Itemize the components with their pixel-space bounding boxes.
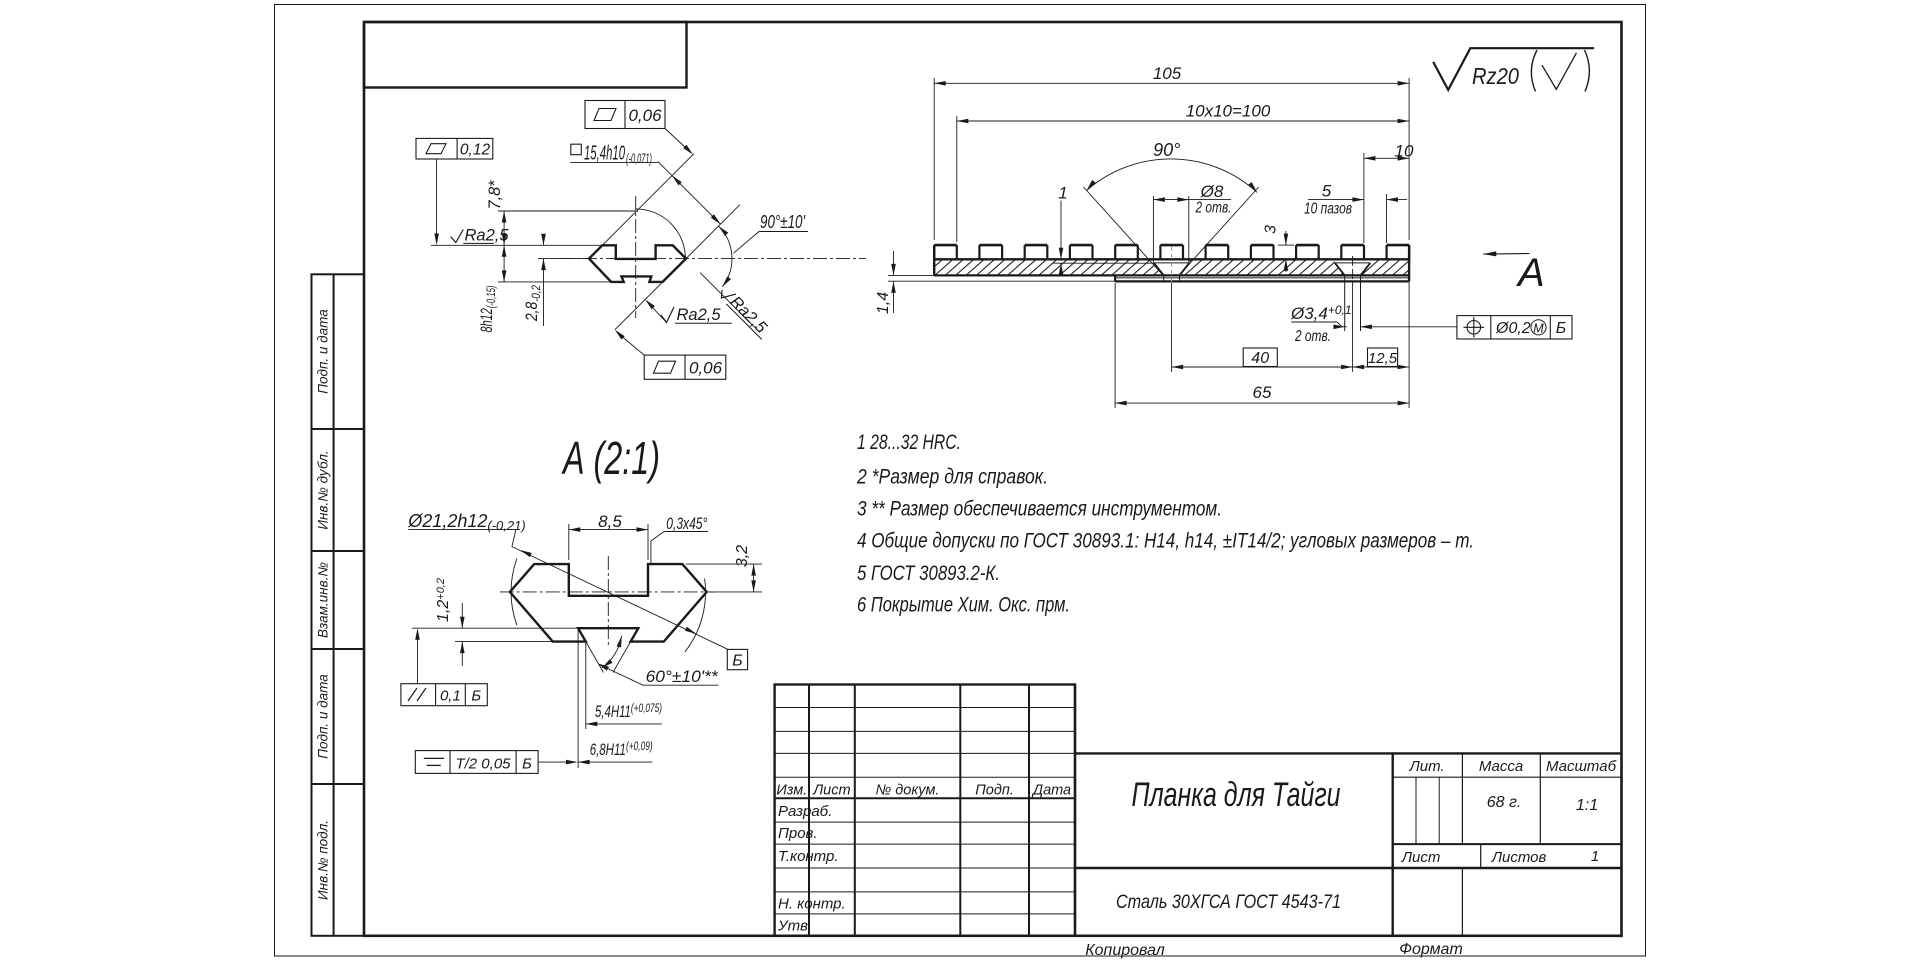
svg-text:Инв.№ дубл.: Инв.№ дубл.: [316, 450, 331, 529]
svg-text:Ø0,2: Ø0,2: [1495, 320, 1531, 337]
svg-text:Взам.инв.№: Взам.инв.№: [316, 562, 331, 638]
svg-text:Лист: Лист: [1401, 849, 1441, 866]
svg-text:Б: Б: [522, 756, 532, 773]
svg-text:Масса: Масса: [1479, 758, 1523, 775]
svg-text:7,8*: 7,8*: [485, 179, 504, 209]
svg-text:12,5: 12,5: [1368, 350, 1398, 367]
svg-text:40: 40: [1251, 350, 1269, 367]
svg-text:Rz20: Rz20: [1472, 63, 1519, 89]
svg-text:105: 105: [1153, 64, 1182, 83]
svg-text:Планка для Тайги: Планка для Тайги: [1132, 776, 1341, 814]
svg-text:0,3x45°: 0,3x45°: [666, 515, 707, 533]
svg-text:М: М: [1533, 321, 1544, 335]
svg-text:1:1: 1:1: [1576, 797, 1598, 814]
svg-text:2 отв.: 2 отв.: [1195, 200, 1232, 217]
svg-text:1 28...32 HRC.: 1 28...32 HRC.: [857, 430, 961, 454]
svg-text:Б: Б: [1556, 320, 1566, 337]
svg-text:90°±10': 90°±10': [760, 212, 805, 232]
svg-text:Ø8: Ø8: [1200, 182, 1224, 201]
svg-text:10x10=100: 10x10=100: [1186, 102, 1271, 121]
svg-text:15,4h10: 15,4h10: [584, 143, 625, 165]
svg-text:Утв.: Утв.: [777, 918, 812, 935]
svg-text:1,4: 1,4: [875, 292, 892, 314]
svg-text:3 ** Размер обеспечивается инс: 3 ** Размер обеспечивается инструментом.: [857, 497, 1222, 521]
svg-text:Ra2,5: Ra2,5: [677, 306, 722, 324]
svg-text:90°: 90°: [1153, 140, 1180, 160]
svg-text:Б: Б: [732, 653, 742, 670]
svg-text:2 *Размер для справок.: 2 *Размер для справок.: [856, 465, 1048, 489]
svg-text:Пров.: Пров.: [778, 825, 818, 842]
svg-text:(-0,071): (-0,071): [626, 151, 652, 166]
svg-text:1: 1: [1058, 183, 1067, 202]
svg-text:5: 5: [1322, 182, 1332, 201]
svg-text:Сталь 30ХГСА ГОСТ 4543-71: Сталь 30ХГСА ГОСТ 4543-71: [1116, 892, 1341, 913]
svg-text:0,12: 0,12: [460, 142, 491, 159]
svg-text:Инв.№ подл.: Инв.№ подл.: [316, 820, 331, 900]
svg-text:10 пазов: 10 пазов: [1304, 201, 1352, 218]
svg-text:6 Покрытие Хим. Окс. прм.: 6 Покрытие Хим. Окс. прм.: [857, 593, 1070, 617]
svg-text:Подп. и дата: Подп. и дата: [316, 674, 331, 759]
svg-text:Копировал: Копировал: [1085, 942, 1165, 959]
svg-text:68 г.: 68 г.: [1487, 794, 1522, 811]
svg-text:Дата: Дата: [1031, 783, 1071, 799]
svg-text:3: 3: [1263, 225, 1280, 234]
svg-text:60°±10'**: 60°±10'**: [646, 668, 719, 686]
svg-text:Н. контр.: Н. контр.: [778, 896, 846, 913]
svg-text:А (2:1): А (2:1): [561, 432, 660, 484]
svg-text:8,5: 8,5: [598, 512, 622, 531]
svg-text:Подп. и дата: Подп. и дата: [316, 309, 331, 394]
svg-text:5 ГОСТ 30893.2-К.: 5 ГОСТ 30893.2-К.: [857, 561, 1000, 585]
svg-text:Лит.: Лит.: [1408, 758, 1444, 775]
svg-text:10: 10: [1395, 142, 1414, 161]
svg-text:Подп.: Подп.: [975, 783, 1014, 799]
svg-text:3,2: 3,2: [734, 545, 751, 567]
svg-text:0,06: 0,06: [689, 359, 723, 378]
svg-text:Т.контр.: Т.контр.: [778, 848, 839, 865]
svg-text:0,1: 0,1: [440, 688, 461, 705]
svg-text:0,06: 0,06: [628, 106, 662, 125]
svg-text:Листов: Листов: [1491, 849, 1547, 866]
svg-text:Лист: Лист: [812, 783, 850, 799]
svg-text:А: А: [1516, 251, 1545, 295]
svg-text:Разраб.: Разраб.: [778, 803, 832, 820]
svg-text:Масштаб: Масштаб: [1546, 758, 1617, 775]
svg-text:№ докум.: № докум.: [876, 783, 940, 799]
svg-text:65: 65: [1253, 383, 1272, 402]
svg-text:1: 1: [1591, 848, 1599, 865]
svg-text:4 Общие допуски по ГОСТ 30893.: 4 Общие допуски по ГОСТ 30893.1: Н14, h1…: [857, 529, 1474, 553]
svg-text:T/2 0,05: T/2 0,05: [455, 756, 511, 773]
svg-text:Формат: Формат: [1399, 941, 1463, 958]
svg-text:Б: Б: [471, 688, 481, 705]
svg-text:Изм.: Изм.: [776, 783, 807, 799]
svg-text:2 отв.: 2 отв.: [1294, 328, 1331, 345]
